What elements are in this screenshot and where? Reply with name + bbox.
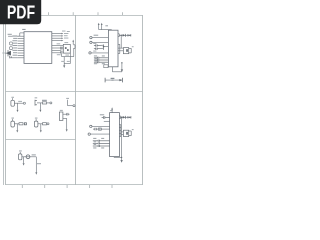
resistor R3 xyxy=(43,123,47,125)
capacitor row C12 xyxy=(93,145,110,147)
diode D5 bar xyxy=(130,116,132,118)
battery B1 left bar xyxy=(104,78,106,83)
terminal circle J2 xyxy=(50,102,52,104)
diode D3 bar xyxy=(130,34,132,36)
buzzer inner mark xyxy=(126,49,128,52)
label plus col3 xyxy=(66,97,69,100)
wire net long to left xyxy=(8,35,20,37)
label Q2 xyxy=(32,154,36,155)
X1 inner pad 1 xyxy=(65,47,67,49)
capacitor C13 xyxy=(93,128,98,131)
capacitor C3 xyxy=(94,44,104,47)
resistor R2 xyxy=(19,123,23,125)
wire right return xyxy=(73,48,75,56)
wire bus left vertical xyxy=(61,54,63,57)
ground U3 xyxy=(120,160,122,163)
wire VCC rail xyxy=(99,29,112,32)
wire col3 to terminal xyxy=(68,105,73,107)
diode D4 xyxy=(123,116,126,119)
junction vertical xyxy=(103,44,105,50)
wire P1 to U2 xyxy=(92,37,108,39)
wire Q1 out xyxy=(63,117,67,119)
wire MK4 out xyxy=(22,156,36,158)
label MK2 xyxy=(11,117,14,120)
mic MK3 top lead xyxy=(35,119,37,121)
ground Q1 xyxy=(66,129,68,131)
wire J2 out xyxy=(37,102,50,104)
speaker label speck xyxy=(132,128,134,131)
ground MK3 xyxy=(40,130,42,132)
U3 speaker pin ladder xyxy=(119,125,123,137)
capacitor row C11 xyxy=(93,142,110,144)
capacitor row C6 xyxy=(94,59,109,61)
wire P2 to U2 xyxy=(92,41,108,43)
mic MK2 top lead xyxy=(12,119,14,121)
wire return right down xyxy=(121,117,123,160)
connector J2 bracket xyxy=(35,100,37,106)
connector D1 shell xyxy=(10,42,13,45)
ground drop J2 xyxy=(39,103,41,110)
connector pin P1 xyxy=(90,36,92,38)
labels cap rows U3 xyxy=(93,138,104,149)
ground drop Q1 xyxy=(66,118,68,129)
label MK4 xyxy=(19,150,22,153)
junction dot C net xyxy=(103,46,105,48)
mic MK3 body xyxy=(34,121,38,127)
label net right xyxy=(37,163,41,164)
battery B1 wire xyxy=(105,79,122,81)
terminal circle MK1 xyxy=(23,102,25,104)
capacitor row C10 xyxy=(93,140,110,142)
wire MK2 out xyxy=(14,123,23,125)
terminal square MK2 xyxy=(24,123,26,125)
U1 right pins top group xyxy=(52,34,62,41)
wire jog vertical xyxy=(19,33,21,36)
zone ticks bottom xyxy=(22,185,112,188)
wire right return down xyxy=(121,62,123,70)
ground MK4 left xyxy=(23,163,25,165)
sheet frame right xyxy=(142,15,144,185)
wire P3 to U2 xyxy=(91,52,108,54)
mic MK4 body xyxy=(19,154,22,160)
net label left xyxy=(8,34,12,35)
ic U3 xyxy=(110,113,120,157)
buzzer bracket xyxy=(129,48,132,53)
zone ticks top xyxy=(49,12,123,15)
power arrow above right xyxy=(72,42,74,45)
junction dot diode net xyxy=(120,35,122,37)
diode D2 bar xyxy=(125,34,127,37)
label U2 xyxy=(105,25,108,26)
pdf badge xyxy=(0,0,41,24)
terminal circle MK3 xyxy=(47,123,49,125)
wire drop from diode net xyxy=(120,35,122,48)
battery B1 right bar xyxy=(121,78,123,83)
capacitor C2 xyxy=(61,51,62,54)
mcu U1 xyxy=(24,32,52,64)
label J2 xyxy=(35,96,38,99)
ground xyxy=(63,65,65,68)
speaker bracket xyxy=(129,131,132,136)
wire net to U1 pin1 xyxy=(20,32,24,34)
U2 buzzer pin ladder xyxy=(118,44,123,53)
buzzer label speck xyxy=(132,45,134,48)
connector pin P3 xyxy=(89,52,91,54)
power arrow VCC1 xyxy=(98,25,100,30)
label MK1 xyxy=(11,96,14,99)
mic MK4 top lead xyxy=(19,152,21,154)
labels cap rows xyxy=(94,56,105,65)
wire R to U3 xyxy=(101,128,109,130)
sheet outer border left xyxy=(3,15,5,185)
resistor R1 xyxy=(42,102,46,104)
power arrow VCC3 xyxy=(111,109,113,112)
wire cross bar xyxy=(64,63,70,65)
battery B1 arrow xyxy=(119,79,122,81)
speaker LS2 box xyxy=(123,130,128,136)
wire row2 left xyxy=(104,120,110,122)
power arrow VCC2 xyxy=(101,25,103,30)
wire MK1 out xyxy=(14,102,23,104)
wire bottom rail U3 xyxy=(114,156,122,158)
diode D2 xyxy=(123,34,126,37)
wire cluster to pins xyxy=(10,57,18,59)
connector pin P4 xyxy=(90,125,92,127)
U1 left pin name labels xyxy=(12,36,17,56)
frame tick left xyxy=(2,52,6,54)
sheet frame top xyxy=(6,15,143,17)
wire drop right xyxy=(69,53,71,64)
wire P4 to U3 xyxy=(92,125,110,127)
connector pin P2 xyxy=(90,41,92,43)
U2 right pins to diode xyxy=(118,34,131,37)
capacitor row C5 xyxy=(94,57,109,59)
sub box under U2 xyxy=(104,65,108,68)
label above wire MK1 xyxy=(18,100,22,103)
U1 left pins xyxy=(18,36,24,58)
battery B1 plus label xyxy=(111,78,115,79)
label U1 xyxy=(22,29,25,30)
label MK3 xyxy=(35,117,38,120)
component R box xyxy=(98,128,101,130)
wire MK3 out xyxy=(38,123,47,125)
sheet horizontal divider left half xyxy=(6,139,76,141)
label R1 xyxy=(42,100,47,101)
mic MK2 body xyxy=(11,121,15,127)
buzzer LS1 box xyxy=(123,48,128,54)
junction dot diode net U3 xyxy=(121,117,123,119)
wire P5 to U3 xyxy=(90,133,109,135)
U1 right pins middle group xyxy=(52,46,64,53)
ground drop MK2 xyxy=(16,124,18,130)
capacitor C4 xyxy=(94,48,104,51)
net name labels right of arrows xyxy=(62,31,70,39)
connector pin P5 xyxy=(88,133,90,135)
label C4 xyxy=(93,50,96,53)
diode D3 xyxy=(128,34,130,36)
transistor Q2 circle xyxy=(26,155,30,159)
ground U2 xyxy=(121,69,123,72)
ground drop MK3 xyxy=(40,124,42,130)
capacitor C8 xyxy=(67,113,70,116)
diode D4 bar xyxy=(125,116,127,119)
wire bottom bus xyxy=(62,56,74,58)
wire MK4 right drop xyxy=(35,157,37,173)
sheet frame bottom xyxy=(6,184,143,186)
net arrow stem xyxy=(5,52,8,54)
transistor Q1 body xyxy=(59,112,63,120)
battery B1 value mark xyxy=(111,80,113,81)
component X1 box xyxy=(63,44,70,53)
mic MK1 top lead xyxy=(12,98,14,100)
mic MK1 body xyxy=(11,100,15,106)
ground MK1 xyxy=(17,110,19,112)
net wire col3 top xyxy=(67,100,69,106)
component R inner xyxy=(99,129,101,130)
bracket right of X1 xyxy=(73,45,75,49)
capacitor C9 xyxy=(102,116,110,119)
tick mark xyxy=(126,34,128,36)
capacitor row C7 xyxy=(94,61,109,63)
label C3 xyxy=(93,42,96,45)
junction dot U3 xyxy=(121,157,122,158)
junction dot xyxy=(121,62,122,63)
speaker inner mark xyxy=(126,132,128,135)
wire Q1 cap row xyxy=(63,113,67,115)
net arrow cluster left xyxy=(6,51,11,56)
ic U2 xyxy=(108,30,118,67)
X1 inner pad 2 xyxy=(67,49,69,51)
wire C net to U2 xyxy=(104,46,109,48)
capacitor C1 xyxy=(61,47,62,50)
value labels cluster xyxy=(57,42,70,62)
net arrow bars xyxy=(8,50,11,58)
label Q1 xyxy=(60,109,63,112)
ground drop left MK4 xyxy=(23,157,25,164)
label U3 xyxy=(110,110,113,111)
sheet horizontal divider full xyxy=(6,91,143,93)
sheet frame left xyxy=(5,15,7,185)
label net P1 xyxy=(94,35,99,36)
terminal circle col3 xyxy=(73,105,75,107)
net arrows right of U1 xyxy=(62,33,64,42)
U3 right pins to diode xyxy=(119,116,131,119)
ground drop MK1 xyxy=(17,103,19,110)
label C9 xyxy=(100,114,104,115)
wire drop left xyxy=(63,57,65,66)
tick mark U3 xyxy=(127,116,129,118)
ground MK2 xyxy=(16,130,18,132)
connector D2 shell xyxy=(10,47,13,50)
ground J2 xyxy=(39,110,41,112)
sheet vertical divider xyxy=(75,15,77,185)
ground MK4 right xyxy=(35,172,37,174)
diode D5 xyxy=(129,116,131,118)
wire U2 bottom rail xyxy=(112,71,122,73)
wire U3 bottom lead xyxy=(113,156,115,159)
svg-text:PDF: PDF xyxy=(7,1,35,22)
wire U2 bottom lead left xyxy=(111,67,113,72)
